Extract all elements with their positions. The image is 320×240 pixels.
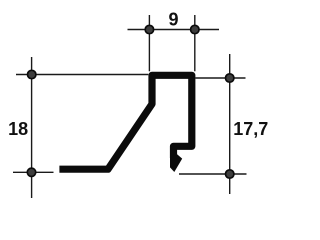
svg-text:17,7: 17,7	[233, 119, 268, 139]
svg-text:18: 18	[8, 119, 28, 139]
svg-text:9: 9	[168, 10, 178, 30]
